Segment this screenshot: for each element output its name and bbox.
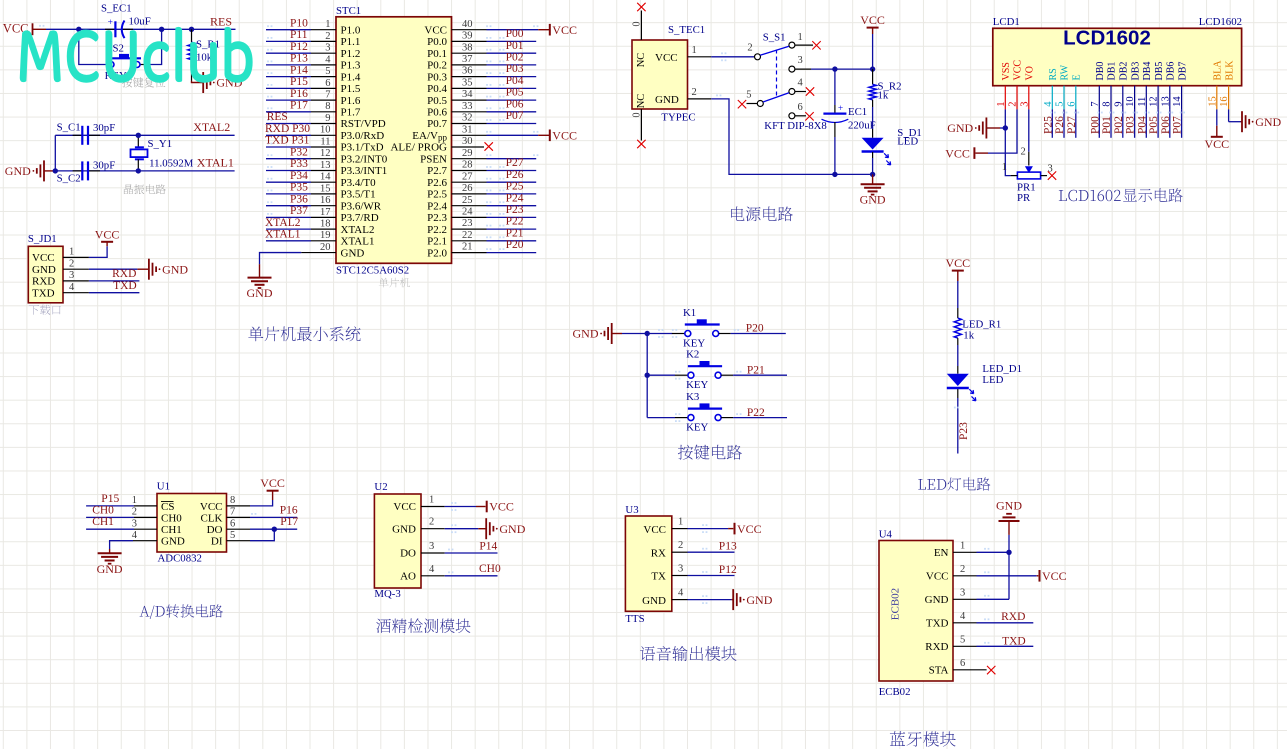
svg-text:P1.7: P1.7 xyxy=(341,107,361,119)
wire pin 14 xyxy=(266,178,336,182)
svg-text:DO: DO xyxy=(400,548,416,560)
svg-text:CH0: CH0 xyxy=(161,512,182,524)
svg-text:GND: GND xyxy=(97,562,123,576)
svg-text:CH0: CH0 xyxy=(92,504,114,516)
svg-text:2: 2 xyxy=(678,540,683,551)
wire U3 pin3 P12 xyxy=(672,564,735,576)
svg-text:34: 34 xyxy=(462,89,473,100)
wire pin 39 xyxy=(452,37,537,41)
svg-text:7: 7 xyxy=(230,507,235,518)
power port VCC (U1) xyxy=(267,490,279,492)
LCD module LCD1 (LCD1602) xyxy=(993,16,1242,86)
ground GND (S_JD1) xyxy=(137,259,188,280)
svg-text:P14: P14 xyxy=(479,540,497,552)
svg-text:VCC: VCC xyxy=(260,476,285,490)
wire K2 to P21 xyxy=(675,371,787,380)
svg-text:4: 4 xyxy=(69,282,75,293)
no-ERC mark bottom xyxy=(637,140,645,148)
svg-text:4: 4 xyxy=(960,611,966,622)
caption 晶振电路 xyxy=(124,184,166,194)
wire pin 3 xyxy=(266,49,336,53)
svg-text:GND: GND xyxy=(655,94,679,106)
wire switch pin4 stub xyxy=(795,91,806,93)
svg-text:P03: P03 xyxy=(506,63,524,75)
svg-text:P32: P32 xyxy=(290,146,308,158)
svg-text:2: 2 xyxy=(1021,147,1026,158)
svg-text:DB6: DB6 xyxy=(1166,62,1177,81)
svg-text:GND: GND xyxy=(5,164,31,178)
svg-text:P1.4: P1.4 xyxy=(341,71,361,83)
pin 1 wire S_TEC1 to switch xyxy=(688,45,755,61)
svg-text:7: 7 xyxy=(325,89,330,100)
svg-text:LED: LED xyxy=(982,374,1003,386)
svg-text:KEY: KEY xyxy=(686,422,708,434)
svg-text:P22: P22 xyxy=(506,216,524,228)
svg-text:19: 19 xyxy=(320,230,331,241)
svg-text:P0.5: P0.5 xyxy=(427,95,447,107)
svg-text:EA/Vpp: EA/Vpp xyxy=(412,130,447,143)
no-ERC switch pin5 xyxy=(738,100,746,108)
svg-text:GND: GND xyxy=(860,193,886,207)
wire pin 29 xyxy=(452,154,539,158)
svg-text:P3.3/INT1: P3.3/INT1 xyxy=(341,165,388,177)
wire VCC to LED_R1 xyxy=(957,281,959,308)
ground GND (U3) xyxy=(732,589,734,610)
svg-text:E: E xyxy=(1072,74,1083,80)
svg-text:11.0592M: 11.0592M xyxy=(149,157,194,169)
logo MCUclub watermark xyxy=(21,28,252,81)
wire switch pin6 stub xyxy=(795,115,806,117)
svg-text:P36: P36 xyxy=(290,193,308,205)
svg-text:1: 1 xyxy=(798,32,803,43)
wire pin 18 xyxy=(266,225,336,229)
svg-text:P0.1: P0.1 xyxy=(427,48,447,60)
wire pin 16 xyxy=(266,201,336,205)
svg-text:VCC: VCC xyxy=(655,52,678,64)
wire pin 9 xyxy=(266,119,336,123)
svg-text:P0.2: P0.2 xyxy=(427,60,447,72)
crystal S_Y1 11.0592M xyxy=(131,135,194,171)
wire rail to K3 xyxy=(647,417,675,419)
wire pin 37 xyxy=(452,61,537,65)
svg-text:P3.5/T1: P3.5/T1 xyxy=(341,189,376,201)
wire U4 pin3 GND xyxy=(953,587,1009,599)
svg-text:GND: GND xyxy=(573,327,599,341)
svg-text:P06: P06 xyxy=(1160,116,1172,134)
svg-text:DB3: DB3 xyxy=(1130,62,1141,81)
svg-text:40: 40 xyxy=(462,19,473,30)
caption A/D转换电路 xyxy=(140,605,165,619)
svg-text:GND: GND xyxy=(32,264,56,276)
svg-text:P21: P21 xyxy=(747,364,765,376)
svg-text:3: 3 xyxy=(678,564,683,575)
svg-text:8: 8 xyxy=(230,495,235,506)
svg-text:37: 37 xyxy=(462,54,473,65)
svg-text:6: 6 xyxy=(960,658,965,669)
MCU left pin numbers xyxy=(320,19,331,253)
svg-text:5: 5 xyxy=(746,90,751,101)
svg-text:28: 28 xyxy=(462,160,473,171)
svg-text:TXD: TXD xyxy=(113,280,137,292)
svg-text:P23: P23 xyxy=(506,204,524,216)
svg-text:GND: GND xyxy=(341,247,365,259)
wire LCD pin2 to VCC xyxy=(988,109,1017,153)
svg-text:RS: RS xyxy=(1048,68,1059,80)
svg-text:P2.6: P2.6 xyxy=(427,177,447,189)
svg-text:VCC: VCC xyxy=(95,227,120,241)
svg-text:S2: S2 xyxy=(113,43,124,55)
svg-text:CLK: CLK xyxy=(201,512,223,524)
svg-text:32: 32 xyxy=(462,113,473,124)
svg-text:XTAL2: XTAL2 xyxy=(341,224,375,236)
power port VCC (pin 31) xyxy=(538,129,577,143)
ground GND (MCU pin20) xyxy=(248,277,272,279)
svg-text:0: 0 xyxy=(632,22,643,27)
svg-text:P2.7: P2.7 xyxy=(427,165,447,177)
svg-text:PR: PR xyxy=(1017,192,1031,204)
svg-text:P2.3: P2.3 xyxy=(427,212,447,224)
svg-text:XTAL1: XTAL1 xyxy=(265,229,301,241)
wire pin 28 xyxy=(452,166,537,170)
svg-text:ADC0832: ADC0832 xyxy=(158,553,202,565)
svg-text:RW: RW xyxy=(1060,64,1071,80)
svg-text:P04: P04 xyxy=(506,75,524,87)
svg-text:P01: P01 xyxy=(1101,116,1113,134)
node junction at S_R1 top xyxy=(189,27,194,32)
svg-text:23: 23 xyxy=(462,218,473,229)
svg-text:CH1: CH1 xyxy=(161,524,182,536)
pin 0 bottom (S_TEC1) xyxy=(632,109,643,141)
wire pin 27 xyxy=(452,178,537,182)
svg-text:RXD P30: RXD P30 xyxy=(265,123,310,135)
wire GND vertical (U4) xyxy=(1008,535,1010,599)
svg-text:21: 21 xyxy=(462,242,473,253)
svg-text:VCC: VCC xyxy=(424,24,447,36)
svg-text:P14: P14 xyxy=(290,64,308,76)
wire rail to K2 xyxy=(647,374,675,376)
svg-text:P1.2: P1.2 xyxy=(341,48,361,60)
svg-text:GND: GND xyxy=(392,523,416,535)
wire U4 pin5 RXD net TXD xyxy=(953,634,1033,646)
wire pin 2 xyxy=(266,37,336,41)
node junction XTAL2 xyxy=(136,133,141,138)
svg-text:VCC: VCC xyxy=(1013,60,1024,81)
svg-text:PSEN: PSEN xyxy=(420,153,447,165)
svg-text:TXD: TXD xyxy=(926,618,949,630)
ADC U1 (ADC0832) xyxy=(157,481,227,565)
ground GND (reset) xyxy=(192,72,243,93)
svg-text:2: 2 xyxy=(325,31,330,42)
svg-text:S_EC1: S_EC1 xyxy=(101,2,132,14)
svg-text:2: 2 xyxy=(960,564,965,575)
LCD pin numbers (rotated) xyxy=(996,96,1230,107)
resistor S_R2 1k xyxy=(869,69,902,129)
caption LED灯电路 xyxy=(918,479,946,490)
svg-text:DB1: DB1 xyxy=(1107,62,1118,81)
svg-text:DB0: DB0 xyxy=(1095,62,1106,81)
svg-text:P2.4: P2.4 xyxy=(427,200,447,212)
svg-text:P02: P02 xyxy=(1113,116,1125,134)
wire U2 pin3 P14 xyxy=(421,541,498,553)
svg-text:3: 3 xyxy=(132,518,137,529)
voice module U3 (TTS) xyxy=(625,504,671,625)
svg-text:XTAL1: XTAL1 xyxy=(341,236,375,248)
power port VCC (reset circuit) xyxy=(3,21,46,35)
switch S_S1 (KFT DIP-8X8) xyxy=(746,31,827,132)
svg-text:P3.4/T0: P3.4/T0 xyxy=(341,177,377,189)
caption 酒精检测模块 xyxy=(376,618,470,633)
pushbutton K1 (KEY) xyxy=(672,307,731,350)
pin 3 wire RXD xyxy=(63,270,139,281)
svg-text:BLA: BLA xyxy=(1213,60,1224,81)
svg-text:P01: P01 xyxy=(506,40,524,52)
svg-text:14: 14 xyxy=(320,172,331,183)
wire pin 24 xyxy=(452,213,537,217)
svg-text:3: 3 xyxy=(325,43,330,54)
LED LED_D1 xyxy=(947,345,1022,401)
svg-text:KFT DIP-8X8: KFT DIP-8X8 xyxy=(764,120,827,132)
wire pin 23 xyxy=(452,225,537,229)
svg-text:XTAL2: XTAL2 xyxy=(265,217,301,229)
svg-text:VCC: VCC xyxy=(860,13,885,27)
svg-text:1k: 1k xyxy=(878,90,889,102)
svg-text:P37: P37 xyxy=(290,205,308,217)
svg-text:RXD: RXD xyxy=(32,276,55,288)
wire pin 38 xyxy=(452,49,537,53)
capacitor S_EC1 10uF xyxy=(101,2,151,38)
svg-text:3: 3 xyxy=(69,270,74,281)
wire switch pin5 stub xyxy=(747,103,758,105)
caption 单片机 (gray) xyxy=(379,278,410,288)
wire U1 pin8 to VCC xyxy=(227,491,273,506)
wire U2 pin1 to VCC xyxy=(421,495,486,511)
svg-text:RXD: RXD xyxy=(1001,611,1025,623)
svg-text:18: 18 xyxy=(320,219,331,230)
svg-text:S_C2: S_C2 xyxy=(57,173,81,185)
caption 蓝牙模块 xyxy=(890,731,956,746)
resistor S_R1 10k xyxy=(188,29,220,81)
no-ERC switch pin1 xyxy=(812,41,820,49)
wire LCD pin15 to VCC xyxy=(1204,109,1229,150)
svg-text:30pF: 30pF xyxy=(93,159,115,171)
caption 单片机最小系统 xyxy=(248,326,360,341)
wire GND to K1 rail xyxy=(622,329,672,338)
wire K1 to P20 xyxy=(672,329,786,338)
wire pin 6 xyxy=(266,84,336,88)
wire S2 to junction (right drop) xyxy=(144,29,162,64)
wire pin 40 xyxy=(452,25,539,29)
pushbutton S2 (KEY) xyxy=(105,43,144,83)
svg-text:P05: P05 xyxy=(1148,116,1160,134)
ground GND (LCD right) xyxy=(1241,111,1243,132)
svg-text:12: 12 xyxy=(320,148,331,159)
ground GND (LCD left) xyxy=(947,118,1000,139)
node junction GND/C2 xyxy=(53,168,58,173)
svg-text:P1.6: P1.6 xyxy=(341,95,361,107)
power port VCC (LCD) xyxy=(945,146,988,160)
wire pin 32 xyxy=(452,119,537,123)
svg-text:P16: P16 xyxy=(290,88,308,100)
no-ERC switch pin4 xyxy=(806,87,814,95)
svg-text:P3.6/WR: P3.6/WR xyxy=(341,200,382,212)
svg-text:P3.0/RxD: P3.0/RxD xyxy=(341,130,385,142)
svg-text:P07: P07 xyxy=(506,110,524,122)
svg-text:+: + xyxy=(108,18,113,28)
svg-text:VCC: VCC xyxy=(393,501,416,513)
svg-text:RXD: RXD xyxy=(112,268,136,280)
svg-text:TXD P31: TXD P31 xyxy=(265,135,310,147)
svg-text:XTAL2: XTAL2 xyxy=(193,120,230,134)
wire pin 17 xyxy=(266,213,336,217)
caption 语音输出模块 xyxy=(640,646,737,661)
svg-text:20: 20 xyxy=(320,242,331,253)
svg-text:3: 3 xyxy=(429,541,434,552)
svg-text:LCD1: LCD1 xyxy=(993,16,1020,28)
svg-text:P0.4: P0.4 xyxy=(427,83,447,95)
svg-text:P20: P20 xyxy=(506,239,524,251)
svg-text:P3.7/RD: P3.7/RD xyxy=(341,212,379,224)
svg-text:STA: STA xyxy=(929,665,949,677)
wire pin 4 xyxy=(266,61,336,65)
svg-text:XTAL1: XTAL1 xyxy=(197,156,234,170)
svg-text:RES: RES xyxy=(210,14,232,28)
svg-text:P10: P10 xyxy=(290,17,308,29)
svg-text:22: 22 xyxy=(462,230,473,241)
svg-text:P27: P27 xyxy=(1066,116,1078,134)
ground GND (U4 top) xyxy=(996,499,1022,535)
svg-text:P3.2/INT0: P3.2/INT0 xyxy=(341,153,388,165)
svg-text:DO: DO xyxy=(207,524,223,536)
svg-text:2: 2 xyxy=(692,87,697,98)
svg-text:4: 4 xyxy=(678,588,684,599)
wire switch pin3 to VCC rail xyxy=(795,68,873,70)
wire U2 pin4 CH0 xyxy=(421,564,498,576)
svg-text:U4: U4 xyxy=(879,528,893,540)
wire LCD pin16 to GND xyxy=(1229,109,1242,121)
svg-text:P20: P20 xyxy=(746,323,764,335)
pin 0 top (S_TEC1) xyxy=(632,11,643,41)
wire keys rail vertical xyxy=(646,334,648,418)
svg-text:P1.1: P1.1 xyxy=(341,36,361,48)
wire U1 pin2 CH0 xyxy=(86,507,157,518)
svg-text:EN: EN xyxy=(934,547,949,559)
wire pin 22 xyxy=(452,236,537,240)
caption 下载口 xyxy=(29,305,61,315)
svg-text:P0.3: P0.3 xyxy=(427,71,447,83)
capacitor EC1 220uF (polarized) xyxy=(822,69,876,174)
svg-text:ALE/ PROG: ALE/ PROG xyxy=(390,142,447,154)
svg-text:VCC: VCC xyxy=(926,571,949,583)
node junction at EC1 right xyxy=(159,27,164,32)
wire switch pin1 stub xyxy=(795,44,813,46)
ground GND (U2) xyxy=(485,518,487,539)
svg-text:GND: GND xyxy=(161,536,185,548)
svg-text:RES: RES xyxy=(267,111,288,123)
wire U1 pin7 P16 xyxy=(227,507,298,518)
LED S_D1 xyxy=(862,127,922,175)
wire pin 10 xyxy=(266,131,336,135)
wire pin 19 xyxy=(266,236,336,240)
ground GND (U1) xyxy=(98,552,122,554)
svg-text:P1.3: P1.3 xyxy=(341,60,361,72)
node junction keys rail mid xyxy=(645,373,650,378)
svg-text:P27: P27 xyxy=(506,157,524,169)
resistor LED_R1 1k xyxy=(954,308,1001,345)
capacitor S_C2 30pF xyxy=(57,159,116,184)
wire XTAL1 bottom xyxy=(55,170,234,172)
svg-text:P2.5: P2.5 xyxy=(427,189,447,201)
wire pin 7 xyxy=(266,96,336,100)
svg-text:0: 0 xyxy=(632,113,643,118)
svg-text:GND: GND xyxy=(642,595,666,607)
svg-text:U3: U3 xyxy=(625,504,638,516)
wire U4 pin2 to VCC xyxy=(953,564,1038,576)
svg-text:VCC: VCC xyxy=(945,256,970,270)
no-ERC switch pin6 xyxy=(805,112,813,120)
svg-text:S_S1: S_S1 xyxy=(763,31,786,43)
svg-text:CS: CS xyxy=(161,501,174,513)
svg-text:P24: P24 xyxy=(506,192,524,204)
svg-text:6: 6 xyxy=(325,78,330,89)
svg-text:GND: GND xyxy=(925,594,949,606)
svg-text:1: 1 xyxy=(960,540,965,551)
svg-text:1: 1 xyxy=(325,19,330,30)
svg-text:P0.7: P0.7 xyxy=(427,118,447,130)
ground GND (crystal) xyxy=(5,160,56,181)
pin 2 wire S_TEC1 (GND net) xyxy=(688,87,835,174)
svg-text:11: 11 xyxy=(320,136,330,147)
svg-text:P15: P15 xyxy=(290,76,308,88)
svg-text:P02: P02 xyxy=(506,52,524,64)
svg-text:P11: P11 xyxy=(290,29,308,41)
connector S_TEC1 (TYPEC) xyxy=(632,24,705,123)
svg-text:P13: P13 xyxy=(290,53,308,65)
wire pin 21 xyxy=(452,248,537,252)
caption 按键电路 xyxy=(678,445,742,460)
svg-text:10uF: 10uF xyxy=(129,15,151,27)
svg-text:31: 31 xyxy=(462,124,473,135)
svg-text:VCC: VCC xyxy=(552,129,577,143)
svg-text:8: 8 xyxy=(325,101,330,112)
svg-text:16: 16 xyxy=(320,195,331,206)
svg-text:P34: P34 xyxy=(290,170,308,182)
wire pin 35 xyxy=(452,84,537,88)
wire U4 pin4 TXD net RXD xyxy=(953,611,1033,623)
power port VCC (LED circuit) xyxy=(945,256,970,281)
svg-text:MQ-3: MQ-3 xyxy=(374,588,400,600)
svg-text:P00: P00 xyxy=(1089,116,1101,134)
svg-text:S_Y1: S_Y1 xyxy=(148,138,173,150)
svg-text:VO: VO xyxy=(1025,66,1036,80)
svg-text:1k: 1k xyxy=(963,330,974,342)
node junction XTAL1 xyxy=(136,168,141,173)
svg-text:P06: P06 xyxy=(506,98,524,110)
svg-text:5: 5 xyxy=(230,530,235,541)
svg-text:26: 26 xyxy=(462,183,473,194)
wire pin 8 xyxy=(266,107,336,111)
svg-text:S_TEC1: S_TEC1 xyxy=(668,24,705,36)
svg-text:DB4: DB4 xyxy=(1142,62,1153,81)
svg-text:P23: P23 xyxy=(958,422,970,440)
svg-text:P1.0: P1.0 xyxy=(341,24,361,36)
svg-text:KEY: KEY xyxy=(683,338,705,350)
node junction rail/resistor xyxy=(870,66,875,71)
svg-text:VCC: VCC xyxy=(737,522,762,536)
wire XTAL2 top xyxy=(55,134,234,136)
svg-text:2: 2 xyxy=(429,517,434,528)
svg-text:TX: TX xyxy=(651,571,666,583)
svg-text:BLK: BLK xyxy=(1224,60,1235,81)
